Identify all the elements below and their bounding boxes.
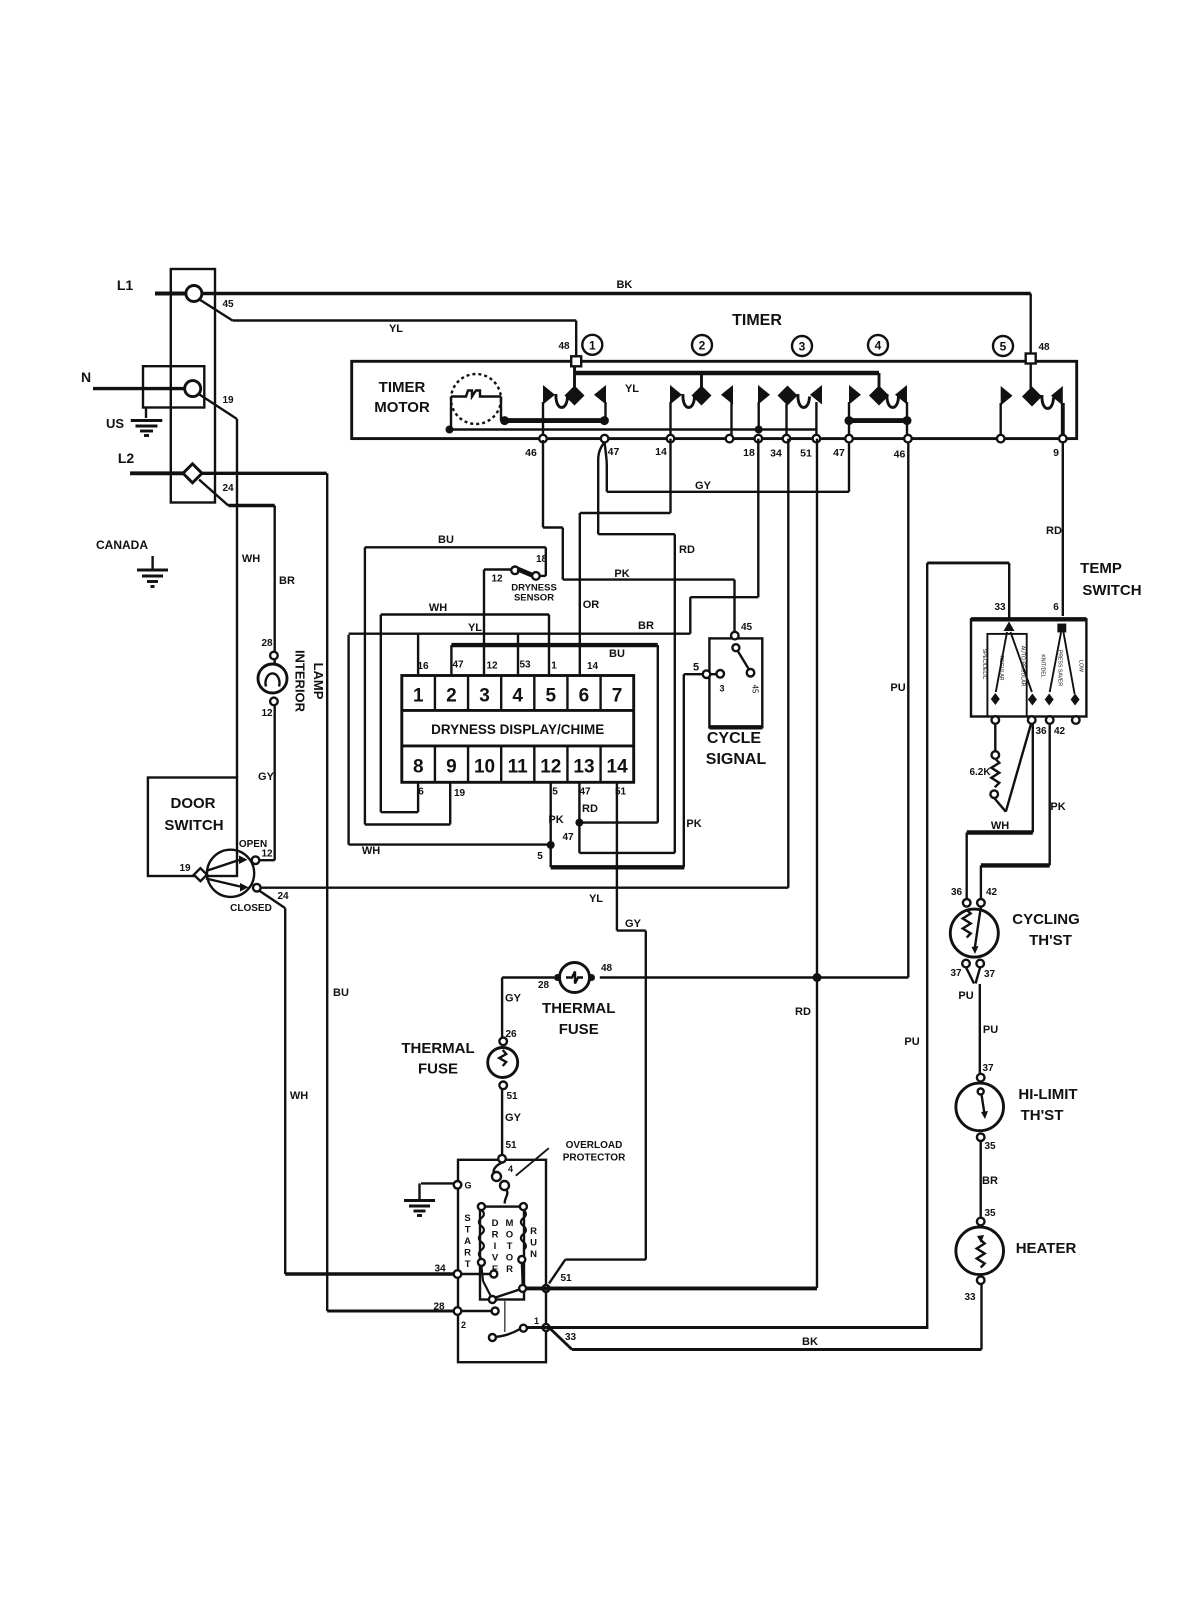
wire RD timer 9 to temp switch: [1062, 441, 1064, 616]
drive motor box: [458, 1160, 546, 1362]
svg-text:28: 28: [261, 638, 273, 649]
svg-text:PU: PU: [904, 1036, 919, 1048]
svg-text:12: 12: [491, 574, 503, 585]
wire BK from L1 to timer contact 5: [202, 292, 1031, 295]
svg-text:FUSE: FUSE: [418, 1061, 458, 1078]
svg-text:51: 51: [560, 1273, 572, 1284]
wire PK timer 46 to cycle signal: [542, 440, 544, 528]
svg-text:SPEC/DELIC: SPEC/DELIC: [981, 649, 987, 680]
svg-text:BU: BU: [333, 987, 349, 999]
svg-text:36: 36: [951, 887, 963, 898]
svg-text:24: 24: [222, 483, 234, 494]
svg-text:18: 18: [536, 554, 548, 565]
wire PU cycling to hi-limit: [979, 984, 981, 1074]
timer cam contact 3: [778, 386, 798, 406]
svg-text:S: S: [464, 1213, 470, 1224]
svg-text:6: 6: [1053, 602, 1059, 613]
svg-text:PU: PU: [890, 682, 905, 694]
wire YL door switch closed to timer 34: [261, 887, 789, 889]
resistor 6.2K: [994, 724, 996, 751]
svg-text:INTERIOR: INTERIOR: [293, 650, 308, 713]
temp switch arms: [996, 632, 1007, 692]
wire BU motor terminal 28: [327, 1310, 457, 1313]
svg-text:51: 51: [505, 1140, 517, 1151]
svg-text:9: 9: [446, 757, 457, 778]
svg-text:DRYNESS DISPLAY/CHIME: DRYNESS DISPLAY/CHIME: [431, 722, 604, 737]
svg-text:PU: PU: [958, 990, 973, 1002]
timer cam contact 4: [878, 373, 881, 388]
wire BU dryness pin 2: [451, 643, 657, 647]
svg-text:LOW: LOW: [1078, 660, 1084, 672]
svg-text:47: 47: [833, 447, 845, 459]
svg-text:34: 34: [434, 1264, 446, 1275]
svg-text:RD: RD: [795, 1006, 811, 1018]
svg-text:BU: BU: [438, 534, 454, 546]
door switch circle: [207, 850, 254, 897]
svg-text:L1: L1: [117, 277, 134, 293]
contact arm 24 from L2: [199, 480, 228, 506]
svg-text:I: I: [494, 1241, 497, 1252]
svg-text:5: 5: [1000, 340, 1007, 354]
motor start winding: [479, 1210, 484, 1258]
wire WH door switch to dryness pin 12 and cycle signal 5: [347, 635, 349, 845]
svg-text:1: 1: [551, 661, 557, 672]
wire RD timer 47 branch: [598, 442, 604, 534]
wire BK heater to motor: [980, 1284, 982, 1350]
connector dryness display/chime: [402, 676, 634, 783]
heater: [977, 1218, 985, 1226]
svg-text:5: 5: [546, 686, 557, 707]
svg-text:TH'ST: TH'ST: [1021, 1107, 1064, 1124]
svg-text:O: O: [506, 1253, 513, 1264]
svg-text:6.2K: 6.2K: [969, 767, 991, 778]
temp switch bottom terminals: [992, 716, 1000, 724]
svg-text:PU: PU: [983, 1024, 998, 1036]
svg-text:TH'ST: TH'ST: [1029, 932, 1072, 949]
svg-text:CYCLE: CYCLE: [707, 730, 762, 747]
terminal L1: [186, 286, 202, 302]
wire BR bus: [349, 633, 691, 635]
svg-text:BR: BR: [982, 1175, 998, 1187]
wire WH from N down to door switch: [236, 419, 238, 778]
svg-text:SWITCH: SWITCH: [164, 817, 223, 834]
svg-text:5: 5: [693, 662, 699, 674]
contact arm 19 from N: [200, 395, 238, 420]
wire GY fuse to motor overload: [501, 1089, 503, 1155]
interior lamp: [270, 652, 278, 660]
thermal fuse F2: [560, 963, 590, 993]
svg-text:51: 51: [506, 1091, 518, 1102]
dryness sensor: [511, 567, 519, 575]
terminal L2: [183, 464, 202, 483]
svg-text:O: O: [506, 1230, 513, 1241]
svg-text:T: T: [465, 1225, 471, 1236]
svg-text:45: 45: [741, 622, 753, 633]
cycle signal terminal 5: [703, 670, 711, 678]
neutral box: [143, 366, 204, 407]
timer terminal circles: [539, 435, 547, 443]
wire WH motor terminal 34: [285, 1272, 457, 1275]
svg-text:V: V: [492, 1253, 499, 1264]
svg-text:PROTECTOR: PROTECTOR: [563, 1153, 626, 1164]
svg-text:GY: GY: [695, 480, 712, 492]
wire YL dryness pin 3 to sensor: [483, 570, 485, 676]
svg-text:WH: WH: [242, 553, 260, 565]
wire motor run terminal 51: [543, 1285, 550, 1292]
svg-text:GY: GY: [505, 1112, 522, 1124]
wire OR timer 14 to dryness pin 6: [669, 439, 671, 513]
svg-text:14: 14: [587, 661, 599, 672]
svg-text:OR: OR: [583, 599, 600, 611]
svg-text:PK: PK: [1050, 801, 1065, 813]
wire timer internal bus 47: [505, 418, 605, 423]
svg-text:4: 4: [512, 686, 523, 707]
svg-text:GY: GY: [625, 918, 642, 930]
svg-text:WH: WH: [290, 1090, 308, 1102]
wire BR hi-limit to heater: [980, 1141, 982, 1218]
svg-text:33: 33: [994, 602, 1006, 613]
svg-text:T: T: [507, 1241, 513, 1252]
svg-text:L2: L2: [118, 450, 135, 466]
svg-text:A: A: [464, 1236, 471, 1247]
motor centrifugal switch start arm: [481, 1266, 483, 1281]
temp switch box: [971, 619, 1086, 716]
svg-text:12: 12: [486, 661, 498, 672]
svg-text:DOOR: DOOR: [171, 795, 216, 812]
wire PU temp switch 33: [927, 561, 1009, 564]
svg-text:1: 1: [413, 686, 424, 707]
timer box: [352, 361, 1077, 438]
svg-text:YL: YL: [468, 622, 482, 634]
svg-text:36: 36: [1035, 726, 1047, 737]
wire BU from L2 down to drive motor: [201, 472, 327, 475]
svg-text:48: 48: [1038, 342, 1050, 353]
svg-text:CANADA: CANADA: [96, 538, 148, 552]
svg-text:MOTOR: MOTOR: [374, 399, 430, 416]
svg-text:46: 46: [525, 447, 537, 459]
svg-text:3: 3: [479, 686, 490, 707]
svg-text:37: 37: [982, 1063, 994, 1074]
wire GY interior lamp to door switch open: [274, 705, 276, 860]
svg-text:THERMAL: THERMAL: [401, 1040, 474, 1057]
thermal fuse F1: [499, 1038, 507, 1046]
svg-text:2: 2: [699, 339, 706, 353]
wire dryness pin 1 stub: [417, 634, 419, 676]
wire WH temp switch to cycling thermostat: [1032, 724, 1034, 833]
svg-text:RD: RD: [679, 544, 695, 556]
svg-text:REGULAR: REGULAR: [998, 655, 1004, 680]
wire RD timer 51 to motor run: [816, 439, 818, 1288]
wire PU timer 46 to heater feed: [907, 442, 909, 978]
wire GY between fuses: [501, 978, 503, 1038]
svg-text:KNIT/DEL: KNIT/DEL: [1040, 654, 1046, 677]
svg-text:R: R: [464, 1248, 471, 1259]
svg-text:WH: WH: [362, 845, 380, 857]
timer motor M1: [451, 374, 501, 424]
svg-text:PK: PK: [548, 814, 563, 826]
svg-text:6: 6: [579, 686, 590, 707]
svg-text:WH: WH: [429, 602, 447, 614]
svg-text:R: R: [506, 1264, 513, 1275]
wire door closed line crossing note / fuse feed: [600, 976, 909, 978]
motor centrifugal switch run arm: [492, 1329, 520, 1337]
ground motor: [454, 1181, 462, 1189]
svg-text:GY: GY: [258, 771, 275, 783]
timer cam position numbers: [582, 335, 602, 355]
svg-text:47: 47: [608, 446, 620, 458]
wire BU loop dryness pin 9 to dryness sensor: [365, 546, 546, 548]
cycling thermostat: [963, 899, 971, 907]
svg-text:34: 34: [770, 448, 782, 460]
svg-text:19: 19: [454, 788, 466, 799]
svg-text:37: 37: [950, 968, 962, 979]
svg-text:BK: BK: [616, 279, 632, 291]
svg-text:3: 3: [719, 684, 724, 694]
wire WH loop dryness pin 8 to pin 5: [381, 613, 549, 615]
svg-text:RD: RD: [1046, 525, 1062, 537]
cycle signal switch arm: [732, 644, 739, 651]
svg-text:16: 16: [417, 661, 429, 672]
svg-text:5: 5: [552, 787, 558, 798]
svg-text:U: U: [530, 1238, 537, 1249]
svg-text:2: 2: [446, 686, 457, 707]
temp switch wiper contacts: [1004, 622, 1015, 632]
svg-text:24: 24: [277, 891, 289, 902]
wire motor terminal 1 to PU: [543, 1324, 550, 1331]
wire L2 feed: [130, 471, 184, 475]
svg-text:14: 14: [607, 757, 629, 778]
svg-text:N: N: [81, 369, 91, 385]
svg-text:M: M: [506, 1218, 514, 1229]
svg-text:OVERLOAD: OVERLOAD: [566, 1140, 623, 1151]
svg-text:BR: BR: [638, 620, 654, 632]
svg-text:13: 13: [573, 757, 594, 778]
svg-text:47: 47: [562, 832, 574, 843]
svg-text:12: 12: [261, 849, 273, 860]
svg-text:SWITCH: SWITCH: [1082, 582, 1141, 599]
svg-text:4: 4: [508, 1164, 513, 1174]
svg-text:T: T: [465, 1259, 471, 1270]
svg-text:3: 3: [799, 340, 806, 354]
wire PK temp switch 42 to cycling thermostat: [1048, 724, 1050, 866]
svg-text:AUTO REGULAR: AUTO REGULAR: [1020, 646, 1026, 687]
door switch open contact: [206, 860, 239, 871]
svg-text:CLOSED: CLOSED: [230, 903, 272, 914]
wire RD to dryness pin 13: [579, 852, 674, 854]
svg-text:PRESS SAVER: PRESS SAVER: [1057, 650, 1063, 686]
wire timer internal YL bus: [575, 371, 880, 375]
svg-text:47: 47: [452, 660, 464, 671]
terminal block (power input): [171, 269, 215, 503]
svg-text:GY: GY: [505, 993, 522, 1005]
svg-text:19: 19: [179, 863, 191, 874]
svg-text:HEATER: HEATER: [1016, 1240, 1077, 1257]
terminal N: [185, 381, 201, 397]
svg-text:TEMP: TEMP: [1080, 560, 1122, 577]
svg-text:4: 4: [875, 339, 882, 353]
svg-text:48: 48: [601, 963, 613, 974]
svg-text:11: 11: [508, 757, 529, 778]
svg-text:1: 1: [534, 1316, 539, 1326]
svg-text:BK: BK: [802, 1336, 818, 1348]
svg-text:US: US: [106, 416, 124, 431]
svg-text:35: 35: [984, 1141, 996, 1152]
wire BR from L2 arm to interior lamp: [228, 504, 274, 507]
overload protector: [494, 1163, 502, 1176]
svg-text:CYCLING: CYCLING: [1012, 911, 1080, 928]
timer cam contact 5: [1029, 360, 1031, 389]
svg-text:51: 51: [800, 448, 812, 460]
svg-text:48: 48: [558, 341, 570, 352]
svg-text:33: 33: [964, 1292, 976, 1303]
svg-text:37: 37: [984, 969, 996, 980]
temp switch selector diamonds: [991, 693, 1000, 705]
svg-text:46: 46: [894, 449, 906, 461]
svg-text:45: 45: [751, 685, 760, 694]
wire YL from L1 to timer contact 1: [233, 319, 577, 321]
motor winding frame: [480, 1207, 524, 1300]
wire dryness pin 4 stub: [517, 634, 519, 676]
temp switch inner frame: [987, 634, 1026, 717]
svg-text:47: 47: [579, 787, 591, 798]
svg-text:42: 42: [986, 887, 998, 898]
svg-text:YL: YL: [625, 383, 639, 395]
svg-text:R: R: [530, 1226, 537, 1237]
svg-text:YL: YL: [589, 893, 603, 905]
wire timer 18 to BR bus: [757, 439, 759, 598]
svg-text:42: 42: [1054, 726, 1066, 737]
wire timer internal bus 18: [450, 428, 817, 430]
svg-text:N: N: [530, 1249, 537, 1260]
svg-text:D: D: [492, 1218, 499, 1229]
svg-text:5: 5: [537, 851, 543, 862]
svg-text:9: 9: [1053, 447, 1059, 459]
svg-text:SENSOR: SENSOR: [514, 593, 554, 604]
door switch common terminal 19: [194, 868, 207, 881]
motor run winding: [521, 1210, 526, 1250]
svg-text:LAMP: LAMP: [311, 663, 326, 700]
svg-text:PK: PK: [614, 568, 629, 580]
svg-text:PK: PK: [686, 818, 701, 830]
door switch box: [148, 778, 237, 877]
svg-text:HI-LIMIT: HI-LIMIT: [1018, 1086, 1077, 1103]
svg-text:7: 7: [612, 686, 623, 707]
svg-text:BR: BR: [279, 575, 295, 587]
svg-text:TIMER: TIMER: [379, 379, 426, 396]
svg-text:53: 53: [519, 660, 531, 671]
wire L1 feed: [155, 292, 187, 296]
wire GY timer 47 to timer 47: [605, 442, 607, 492]
wire GY dryness pin 14 to motor switch: [616, 782, 618, 930]
svg-text:TIMER: TIMER: [732, 312, 782, 329]
hi-limit thermostat: [977, 1074, 985, 1082]
cycle signal box: [709, 638, 762, 727]
wire N feed: [93, 387, 185, 390]
svg-text:19: 19: [222, 395, 234, 406]
svg-text:45: 45: [222, 299, 234, 310]
svg-text:BU: BU: [609, 648, 625, 660]
svg-text:10: 10: [474, 757, 495, 778]
svg-text:THERMAL: THERMAL: [542, 1000, 615, 1017]
timer cam contact 2: [700, 373, 703, 388]
door switch closed contact: [206, 879, 240, 887]
svg-text:18: 18: [743, 447, 755, 459]
cycle signal terminal 45: [731, 632, 739, 640]
wire YL timer 34 to door switch: [787, 439, 789, 888]
svg-text:1: 1: [589, 338, 596, 352]
svg-text:28: 28: [538, 980, 550, 991]
svg-text:G: G: [464, 1181, 471, 1191]
svg-text:FUSE: FUSE: [559, 1021, 599, 1038]
wire WH door switch to drive motor 34: [259, 891, 285, 909]
svg-text:YL: YL: [389, 323, 403, 335]
svg-text:33: 33: [565, 1332, 577, 1343]
svg-text:28: 28: [433, 1302, 445, 1313]
timer terminal squares: [571, 356, 581, 366]
contact arm 45 from L1: [200, 300, 233, 321]
svg-text:14: 14: [655, 446, 667, 458]
svg-text:6: 6: [418, 787, 424, 798]
wire PK cycle signal 5: [684, 673, 703, 675]
svg-text:R: R: [492, 1230, 499, 1241]
svg-text:2: 2: [461, 1320, 466, 1330]
svg-text:SIGNAL: SIGNAL: [706, 751, 767, 768]
svg-text:RD: RD: [582, 803, 598, 815]
timer cam contact 1: [573, 362, 576, 387]
svg-text:35: 35: [984, 1208, 996, 1219]
svg-text:8: 8: [413, 757, 424, 778]
svg-text:12: 12: [540, 757, 561, 778]
svg-text:WH: WH: [991, 820, 1009, 832]
svg-text:12: 12: [261, 708, 273, 719]
